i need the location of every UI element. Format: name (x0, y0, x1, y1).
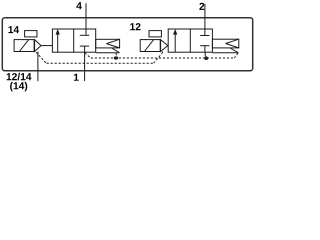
wire dashed pilot control line L2 (36, 52, 162, 63)
wire port 1 line (84, 46, 86, 81)
enclosure frame (2, 18, 252, 71)
wire dashed drop to pilot junction (115, 53, 117, 58)
valve V2 flow arrow (173, 29, 177, 52)
wire tick under right pilot triangle (161, 52, 163, 54)
valve V2 bottom blocked port T (200, 45, 209, 47)
manual override box of left pilot (25, 31, 37, 37)
solenoid coil left (box with diagonal) (14, 40, 34, 52)
valve V1 body (52, 29, 95, 52)
pilot port label 14 (8, 26, 19, 33)
port label 1 (74, 74, 79, 81)
wire dashed pilot supply line L1 (85, 53, 235, 58)
valve V2 body (168, 29, 212, 52)
wire dashed drop from V2 return (234, 53, 238, 58)
pilot triangle right (161, 40, 168, 52)
wire pilot to valve left (41, 45, 52, 47)
node junction dot right (204, 56, 208, 60)
valve V1 bottom blocked port T (80, 45, 89, 47)
wire port 4 line (85, 3, 87, 35)
valve V2 divider (189, 29, 191, 52)
valve V1 divider (73, 29, 75, 52)
air spring return box of V1 (96, 39, 120, 48)
node junction dot left (114, 56, 118, 59)
valve V1 flow arrow (56, 29, 60, 52)
wire V2 bottom port stub (204, 46, 206, 53)
solenoid coil right (box with diagonal) (140, 40, 160, 52)
wire diagonal V1 return to channel (112, 48, 120, 53)
wire port 2 line (204, 4, 206, 36)
wire diagonal V2 return to channel (230, 48, 238, 53)
port label 2 (199, 3, 204, 10)
port label 4 (76, 2, 81, 9)
wire channel under V1 return (96, 52, 120, 54)
valve V1 top blocked port T (80, 34, 89, 36)
pilot port label 12 (130, 23, 140, 30)
port label 12/14 (7, 73, 32, 81)
manual override box of right pilot (149, 31, 161, 37)
pilot triangle left (35, 40, 41, 52)
wire channel under V2 return (212, 52, 238, 54)
air spring return box of V2 (212, 39, 238, 48)
port label (14) (10, 82, 27, 92)
valve V2 top blocked port T (200, 35, 209, 37)
wire port 12/14 line (37, 52, 39, 82)
